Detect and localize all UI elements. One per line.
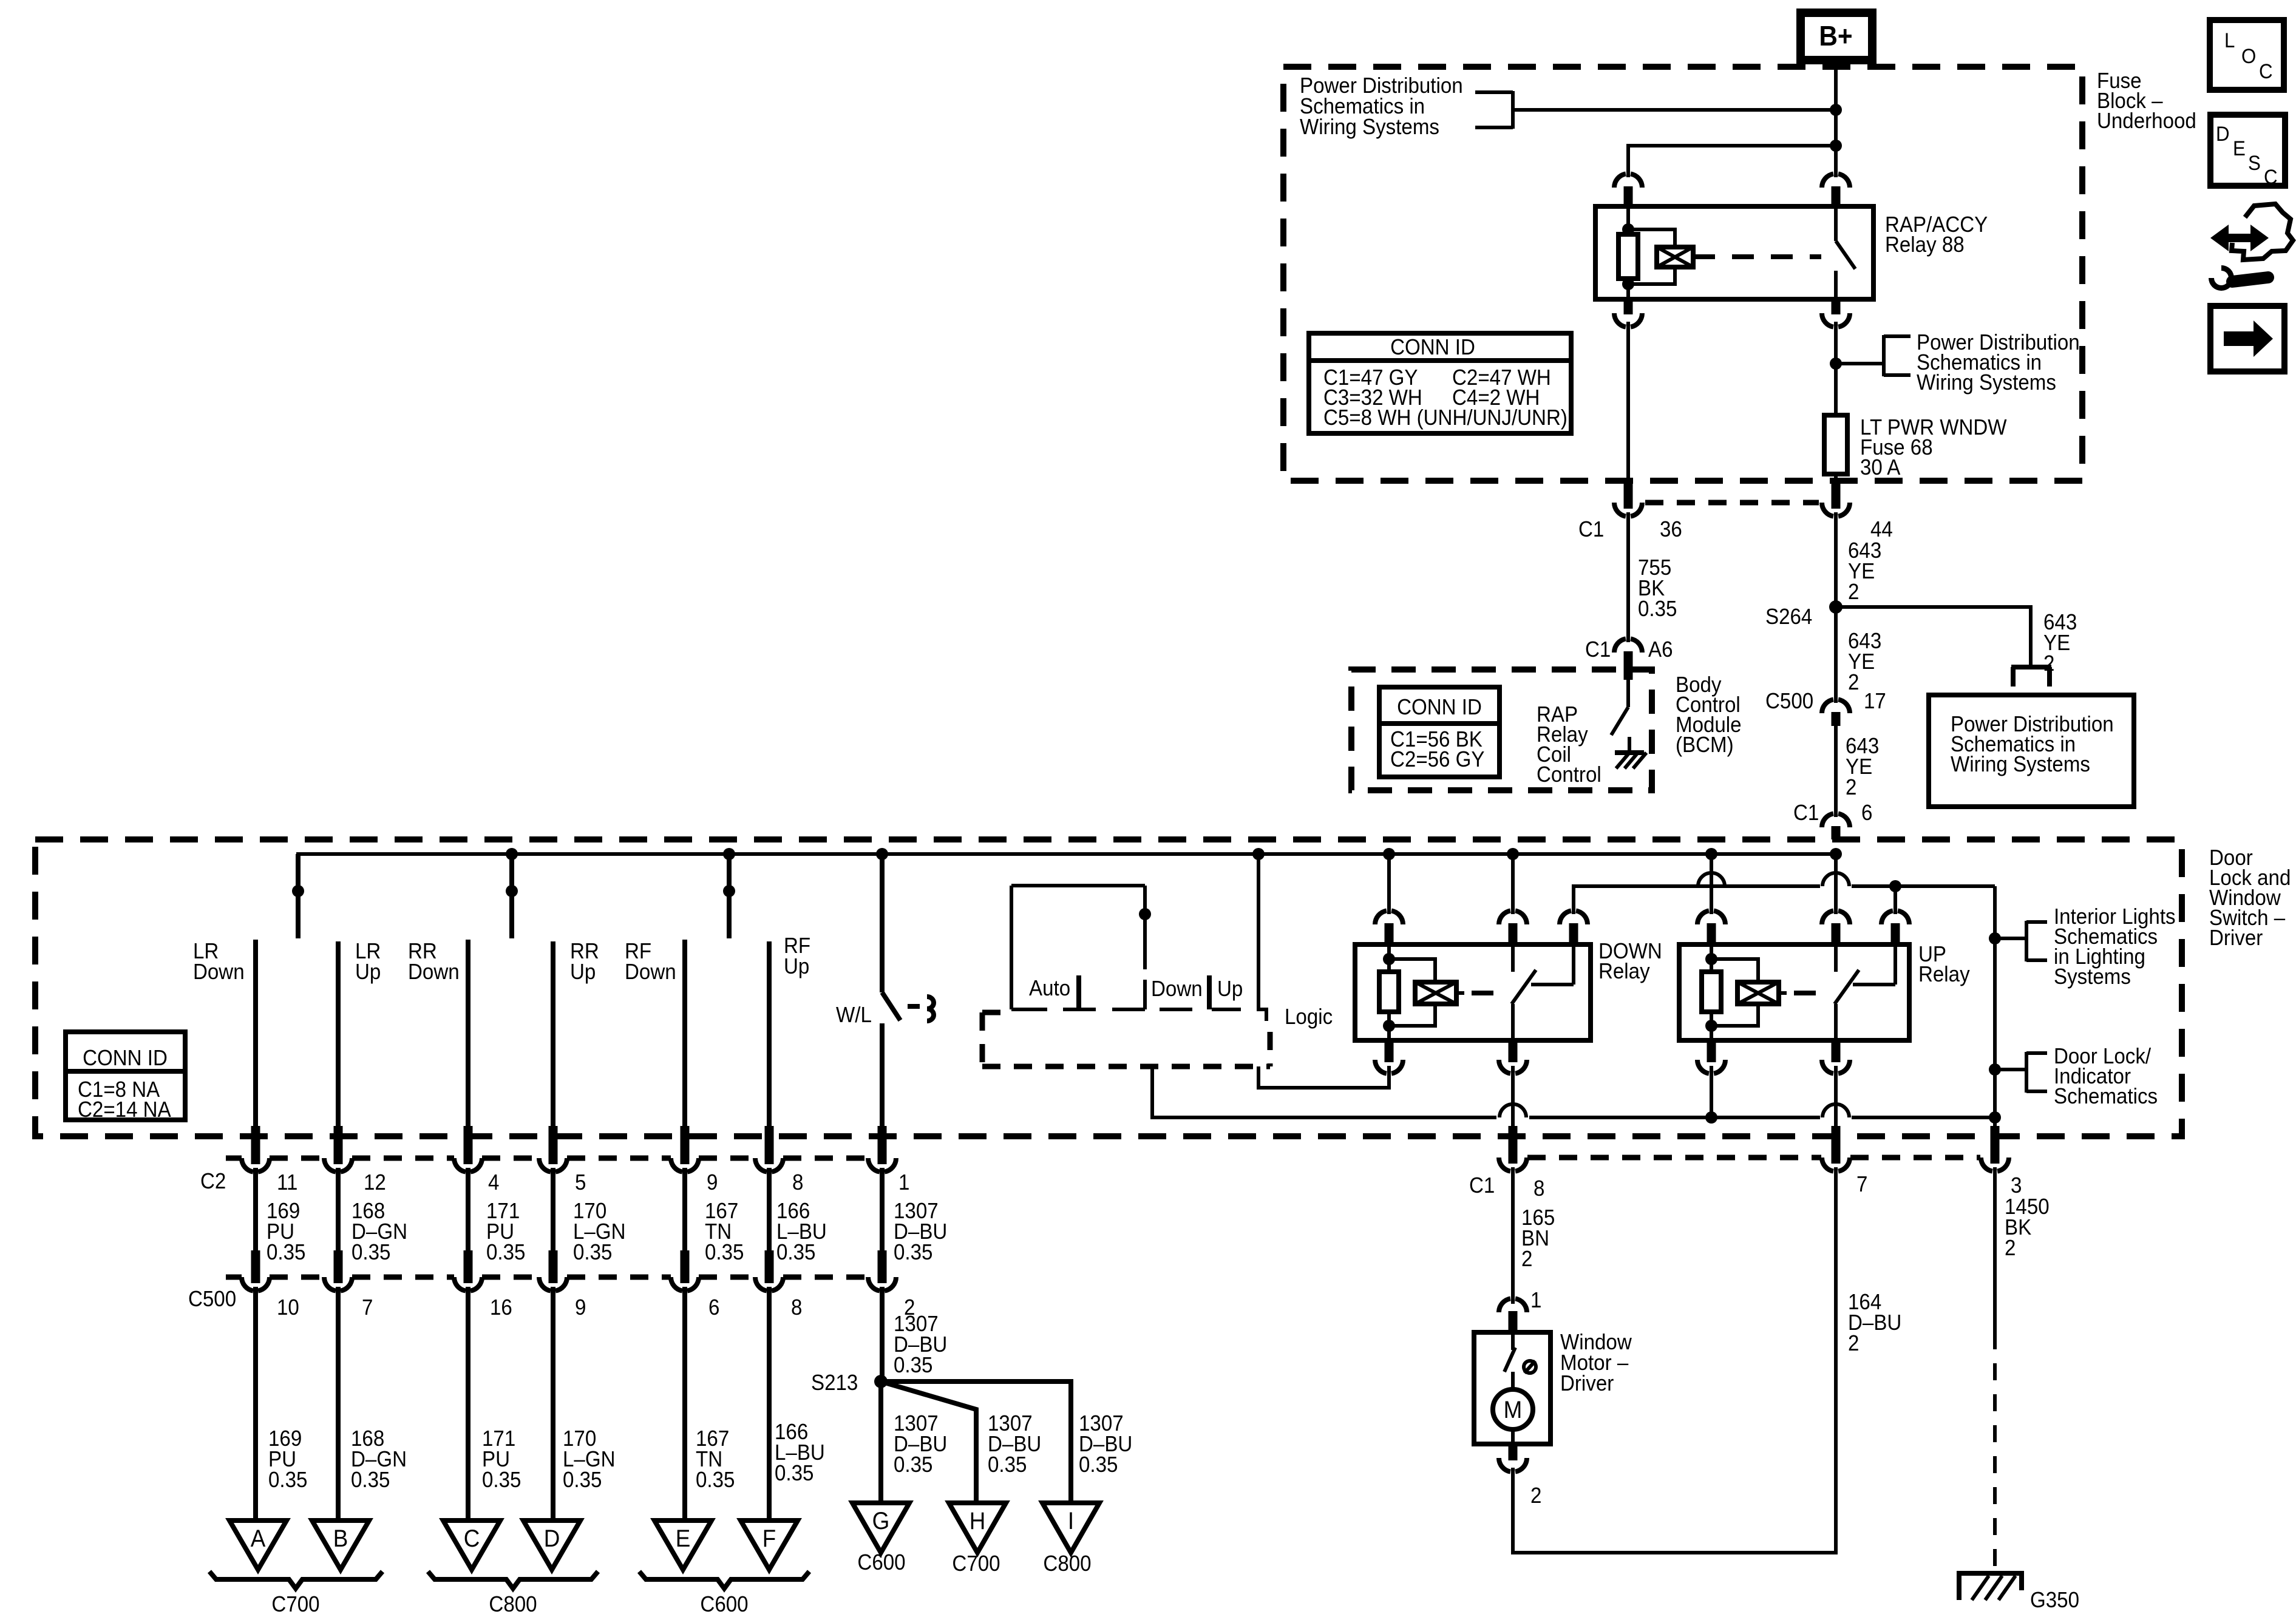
- LT PWR WNDW Fuse 68 30A fuse symbol: [1824, 415, 1847, 474]
- svg-text:9: 9: [707, 1171, 718, 1195]
- thermal protector circle symbol: [1524, 1361, 1536, 1373]
- DOWN Relay label: [1598, 940, 1662, 984]
- svg-text:0.35: 0.35: [482, 1468, 521, 1493]
- CONN ID table (fuse block): [1309, 333, 1571, 433]
- svg-text:C800: C800: [489, 1593, 537, 1617]
- pin labels C500 17: [1765, 690, 1886, 714]
- svg-text:C800: C800: [1043, 1552, 1091, 1576]
- C2 connector dotted line: [226, 1156, 868, 1161]
- wire label 166 L-BU above F: [775, 1420, 825, 1486]
- pin labels C1 A6: [1585, 638, 1673, 662]
- connector C1 pin 44 (fuse block output): [1822, 480, 1850, 517]
- C1 connector dotted line (fuse block bottom): [1645, 500, 1819, 506]
- wire 643 YE S264 to C500: [1834, 607, 1838, 703]
- svg-text:D: D: [544, 1525, 560, 1553]
- logic output wire to UP relay coil and ground net: [1152, 1066, 1496, 1117]
- wire to door lock bracket: [1995, 1068, 2026, 1071]
- junction dots RAP coil: [1622, 223, 1634, 290]
- junction dot UP relay NO pin to second bus: [1889, 880, 1901, 892]
- wire label 643 YE 2 (branch): [2043, 611, 2077, 676]
- brace C800 under C D: [428, 1571, 598, 1588]
- svg-text:G350: G350: [2030, 1588, 2079, 1613]
- connector C2 pin 4: [454, 1126, 482, 1172]
- RAP relay coil resistor: [1618, 206, 1638, 299]
- LR Up contact wire: [336, 941, 341, 1137]
- svg-text:D: D: [2216, 122, 2230, 146]
- reference bracket to Power Distribution (top): [1475, 91, 1513, 129]
- ground net vertical wire: [1993, 886, 1997, 1137]
- DOWN relay feed wires from bus: [1389, 854, 1513, 914]
- splice S213: [874, 1375, 888, 1388]
- hop second bus over UP coil feed: [1698, 873, 1725, 886]
- off-page triangle G: [852, 1503, 909, 1553]
- connector C1 pin 6 (switch feed): [1822, 813, 1850, 839]
- svg-text:Control: Control: [1537, 763, 1601, 787]
- connector C500 pin 2: [868, 1250, 896, 1291]
- svg-text:Wiring Systems: Wiring Systems: [1917, 371, 2056, 395]
- svg-text:Wiring Systems: Wiring Systems: [1951, 753, 2090, 777]
- svg-text:0.35: 0.35: [267, 1241, 305, 1265]
- RF Down label: [625, 940, 676, 985]
- connector C2 pin 11: [242, 1126, 270, 1172]
- reference bracket Door Lock: [2026, 1052, 2047, 1093]
- DOWN relay NC pin wire from second bus: [1572, 895, 1575, 914]
- off-page triangle D: [523, 1520, 580, 1570]
- motor output wire: [1511, 1428, 1515, 1445]
- off-page triangle A: [229, 1520, 287, 1570]
- wire 1450 BK dashed part: [1993, 1332, 1997, 1571]
- connector DOWN relay coil pin: [1375, 910, 1403, 944]
- svg-text:Up: Up: [784, 955, 809, 979]
- brace C600 under E F: [639, 1571, 809, 1588]
- svg-text:Systems: Systems: [2054, 965, 2131, 989]
- DOWN relay actuation dashed link: [1472, 991, 1509, 995]
- connector C1 pin 8: [1499, 1158, 1527, 1171]
- svg-text:Relay: Relay: [1918, 963, 1970, 987]
- LOC navigation box: [2210, 20, 2284, 90]
- RAP relay actuation dashed link: [1693, 254, 1821, 259]
- Body Control Module dashed box: [1351, 670, 1652, 790]
- svg-text:2: 2: [1846, 776, 1856, 800]
- svg-text:W/L: W/L: [836, 1003, 872, 1028]
- wire RAP coil control down to fuse block edge: [1626, 322, 1630, 482]
- RAP Relay Coil Control label: [1537, 703, 1601, 787]
- DOWN relay output wire to C1 pin 8: [1511, 1066, 1515, 1164]
- wire to right bracket: [1836, 362, 1884, 365]
- svg-text:C600: C600: [857, 1551, 905, 1575]
- UP Relay label: [1918, 943, 1970, 987]
- Power Distribution Schematics in Wiring Systems box (right): [1929, 695, 2134, 807]
- connector at RAP relay coil pin 86: [1614, 174, 1642, 188]
- svg-text:36: 36: [1660, 518, 1682, 542]
- connector window motor pin 2: [1499, 1443, 1527, 1472]
- LR Down contact wire: [253, 940, 258, 1137]
- svg-text:0.35: 0.35: [894, 1241, 932, 1265]
- hop over DOWN relay output: [1500, 1104, 1526, 1117]
- svg-text:CONN ID: CONN ID: [1390, 336, 1475, 360]
- connector C1 pin A6 at BCM: [1614, 639, 1642, 671]
- UP relay output wire to C1 pin 7: [1834, 1066, 1838, 1164]
- LR Up label: [355, 940, 381, 985]
- connector below UP relay output: [1822, 1040, 1850, 1074]
- connector below RAP relay switch side: [1822, 299, 1850, 327]
- S213 branch to I: [881, 1381, 1071, 1504]
- C2 pin numbers: [277, 1171, 909, 1195]
- svg-text:C500: C500: [188, 1287, 236, 1312]
- DOWN relay switch blade and contacts: [1512, 944, 1574, 1040]
- svg-text:1: 1: [1530, 1289, 1541, 1313]
- junction dot branch to relay coil: [1830, 140, 1842, 152]
- wires C2 to C500: [256, 1168, 882, 1252]
- connector below DOWN relay coil: [1375, 1040, 1403, 1088]
- ground net wire crossing box edge: [1991, 1126, 2000, 1164]
- connector DOWN relay switch pin: [1499, 910, 1527, 944]
- off-page triangle C: [443, 1520, 500, 1570]
- junction dot to power distribution bracket: [1830, 358, 1842, 370]
- off-page triangle I: [1042, 1503, 1099, 1553]
- svg-text:0.35: 0.35: [486, 1241, 525, 1265]
- connector below DOWN relay output: [1499, 1040, 1527, 1074]
- svg-text:10: 10: [277, 1296, 299, 1320]
- svg-text:0.35: 0.35: [563, 1468, 602, 1493]
- connector C1 pin 3: [1981, 1158, 2009, 1171]
- junction dot logic wire to ground net: [1989, 1111, 2001, 1124]
- svg-text:1: 1: [898, 1171, 909, 1195]
- svg-text:Logic: Logic: [1285, 1005, 1333, 1029]
- svg-text:CONN ID: CONN ID: [83, 1046, 168, 1071]
- connector C2 pin 5: [539, 1126, 567, 1172]
- svg-text:G: G: [872, 1508, 890, 1535]
- svg-text:0.35: 0.35: [1079, 1453, 1118, 1477]
- wire branch to RAP relay coil column: [1628, 146, 1836, 177]
- svg-text:C5=8 WH (UNH/UNJ/UNR): C5=8 WH (UNH/UNJ/UNR): [1323, 406, 1567, 430]
- motor thermal protector switch: [1504, 1333, 1515, 1390]
- svg-text:Relay: Relay: [1598, 960, 1650, 984]
- main feed bus inside switch: [298, 854, 1836, 938]
- svg-text:2: 2: [1848, 1332, 1859, 1356]
- connector C500 pin 7: [324, 1250, 352, 1291]
- svg-text:4: 4: [488, 1171, 499, 1195]
- svg-text:16: 16: [490, 1296, 512, 1320]
- UP Relay box: [1679, 944, 1909, 1040]
- wire B+ feed down to branch: [1834, 110, 1838, 146]
- LT PWR WNDW Fuse 68 label: [1860, 416, 2007, 480]
- wire label 164 D-BU 2: [1848, 1290, 1901, 1356]
- svg-text:6: 6: [1861, 801, 1872, 825]
- wire to interior lights bracket: [1995, 937, 2026, 940]
- diagnostic tools icon (arrows and wrench): [2209, 204, 2293, 291]
- logic output wire to DOWN relay coil: [1258, 1066, 1389, 1088]
- UP relay switch blade and contacts: [1835, 944, 1895, 1040]
- svg-text:30 A: 30 A: [1860, 456, 1900, 480]
- svg-text:5: 5: [575, 1171, 586, 1195]
- svg-text:0.35: 0.35: [705, 1241, 744, 1265]
- S213 branch to G: [878, 1381, 883, 1504]
- svg-text:L: L: [2224, 29, 2235, 52]
- wire to LT PWR WNDW fuse: [1834, 364, 1838, 415]
- junction dot UP coil to logic wire: [1705, 1111, 1717, 1124]
- wire label 643 YE 2 (lowest): [1846, 734, 1879, 800]
- junction dots UP coil: [1705, 953, 1717, 1032]
- wire fuse to fuse block edge: [1834, 474, 1838, 482]
- svg-text:0.35: 0.35: [894, 1453, 932, 1477]
- Auto/Down/Up master switch solid box: [1011, 886, 1241, 1009]
- svg-text:Wiring Systems: Wiring Systems: [1300, 115, 1439, 140]
- svg-text:Down: Down: [625, 960, 676, 985]
- junction dot B+ feed / bracket wire: [1830, 104, 1842, 116]
- svg-text:3: 3: [2011, 1174, 2022, 1198]
- connector C1 pin 36 (fuse block output): [1614, 480, 1642, 517]
- RF Up contact wire: [767, 941, 772, 1137]
- RAP relay coil parallel loop and coil symbol: [1628, 229, 1693, 284]
- BCM internal ground symbol: [1615, 753, 1646, 768]
- connector at RAP relay switch pin 30: [1822, 174, 1850, 188]
- off-page triangle F: [741, 1520, 798, 1570]
- C500 connector dotted line: [226, 1275, 868, 1280]
- svg-text:Down: Down: [1151, 977, 1203, 1002]
- svg-text:S213: S213: [811, 1371, 858, 1395]
- ground G350 symbol: [1957, 1573, 2024, 1600]
- svg-text:8: 8: [791, 1296, 802, 1320]
- Logic dashed box: [982, 1012, 1270, 1066]
- svg-text:C600: C600: [700, 1593, 748, 1617]
- svg-text:44: 44: [1870, 518, 1893, 542]
- svg-text:B+: B+: [1819, 21, 1852, 52]
- brace C700 under A B: [209, 1571, 382, 1588]
- svg-text:Up: Up: [1217, 977, 1243, 1002]
- svg-text:M: M: [1504, 1397, 1523, 1424]
- Door Lock and Window Switch dashed boundary: [35, 839, 2182, 1136]
- svg-text:C1: C1: [1469, 1174, 1495, 1198]
- svg-text:Up: Up: [570, 960, 596, 985]
- hop second bus over UP switch feed: [1822, 873, 1849, 886]
- svg-text:H: H: [970, 1508, 986, 1535]
- svg-text:O: O: [2241, 44, 2256, 68]
- svg-text:C: C: [2264, 165, 2278, 189]
- Down contact tick: [1207, 975, 1212, 1009]
- C1 pin labels: [1469, 1173, 2022, 1201]
- svg-text:C: C: [2259, 59, 2273, 83]
- off-page triangle B: [312, 1520, 369, 1570]
- wire label 755 BK 0.35: [1638, 556, 1677, 622]
- RR Down contact wire: [466, 940, 470, 1137]
- svg-text:Driver: Driver: [2209, 926, 2263, 951]
- connector DOWN relay NC pin: [1560, 910, 1588, 944]
- wire 643 YE from pin 44 to S264: [1834, 512, 1838, 607]
- svg-text:A6: A6: [1648, 638, 1673, 662]
- svg-text:0.35: 0.35: [268, 1468, 307, 1493]
- svg-text:Schematics: Schematics: [2054, 1085, 2158, 1109]
- window lock detent symbol: [908, 997, 934, 1021]
- harness continuation staple symbol: [2011, 667, 2051, 686]
- UP relay coil resistor: [1702, 944, 1721, 1040]
- C1 connector dotted line (switch to motor): [1527, 1155, 1980, 1161]
- Power Distribution Schematics label (mid): [1917, 331, 2080, 395]
- wire 1450 BK ground solid part: [1993, 1167, 1997, 1332]
- svg-text:2: 2: [1521, 1247, 1532, 1272]
- svg-text:0.35: 0.35: [988, 1453, 1027, 1477]
- svg-text:Up: Up: [355, 960, 381, 985]
- splice S264: [1829, 600, 1843, 614]
- svg-text:11: 11: [277, 1171, 297, 1195]
- connector UP relay switch pin: [1822, 910, 1850, 944]
- DOWN Relay box: [1355, 944, 1591, 1040]
- Power Distribution Schematics in Wiring Systems label (top left): [1300, 74, 1463, 140]
- RR Down label: [408, 940, 460, 985]
- Window Motor - Driver label: [1560, 1331, 1632, 1396]
- connector below UP relay coil: [1697, 1040, 1725, 1117]
- wire 165 BN to window motor: [1511, 1167, 1515, 1304]
- svg-text:C1: C1: [1585, 638, 1611, 662]
- DESC navigation box: [2210, 115, 2285, 188]
- DOWN relay coil resistor: [1379, 944, 1399, 1040]
- svg-text:Relay 88: Relay 88: [1885, 233, 1965, 257]
- BCM RAP relay coil control driver switch: [1611, 668, 1629, 753]
- off-page triangle H: [949, 1503, 1006, 1553]
- wire labels 1307 D-BU to G H I: [894, 1412, 1132, 1477]
- UP relay NO pin wire from second bus: [1894, 886, 1897, 914]
- Body Control Module (BCM) label: [1676, 673, 1742, 758]
- svg-text:9: 9: [575, 1296, 586, 1320]
- CONN ID table (BCM): [1379, 687, 1500, 777]
- svg-text:2: 2: [1848, 671, 1859, 695]
- wire labels between C2 and C500: [267, 1199, 947, 1265]
- connector C500 pin 10: [242, 1250, 270, 1291]
- svg-text:S264: S264: [1765, 605, 1812, 629]
- LR Down label: [193, 940, 245, 985]
- svg-text:0.35: 0.35: [352, 1241, 390, 1265]
- svg-text:C700: C700: [952, 1552, 1000, 1576]
- reference bracket Interior Lights: [2026, 921, 2047, 961]
- svg-text:C2=56 GY: C2=56 GY: [1390, 748, 1485, 772]
- svg-text:0.35: 0.35: [351, 1468, 390, 1493]
- svg-text:Auto: Auto: [1029, 977, 1070, 1001]
- wire W/L column to S213: [880, 1287, 885, 1381]
- branch wire from S264 to harness stub: [1836, 607, 2031, 665]
- svg-text:8: 8: [792, 1171, 803, 1195]
- switch common column: [1258, 854, 1266, 1021]
- connector UP relay NO pin: [1881, 910, 1909, 944]
- wire label 165 BN 2: [1521, 1206, 1555, 1272]
- Interior Lights Schematics in Lighting Systems label: [2054, 905, 2176, 989]
- hop over UP relay output: [1822, 1104, 1849, 1117]
- svg-text:Driver: Driver: [1560, 1372, 1614, 1396]
- motor M circle: [1493, 1389, 1533, 1429]
- svg-text:S: S: [2248, 151, 2261, 175]
- svg-text:A: A: [251, 1525, 266, 1553]
- svg-text:C1: C1: [1793, 801, 1819, 825]
- Door Lock and Window Switch - Driver label: [2209, 846, 2291, 951]
- connector C2 pin 9: [671, 1126, 699, 1172]
- svg-text:E: E: [676, 1525, 691, 1553]
- S213 branch to H: [881, 1381, 976, 1504]
- UP relay feed wires from bus: [1711, 854, 1836, 914]
- Door Lock/Indicator Schematics label: [2054, 1045, 2158, 1109]
- wire label 1450 BK 2: [2005, 1195, 2050, 1261]
- connector C500 pin 6: [671, 1250, 699, 1291]
- svg-text:17: 17: [1864, 690, 1886, 714]
- switch common drop RR: [506, 854, 518, 938]
- svg-text:C1: C1: [1578, 518, 1604, 542]
- RAP relay switch: [1836, 206, 1855, 299]
- svg-text:CONN ID: CONN ID: [1397, 696, 1482, 720]
- svg-text:0.35: 0.35: [775, 1462, 813, 1486]
- svg-text:C500: C500: [1765, 690, 1813, 714]
- wire 643 YE C500 to C1 pin 6: [1834, 722, 1838, 817]
- B+ power terminal: [1801, 13, 1872, 60]
- svg-text:12: 12: [364, 1171, 386, 1195]
- wire B+ down to fuse block: [1834, 60, 1838, 109]
- wire from bracket to B+ feed: [1513, 108, 1836, 112]
- motor return wire to pin 7 wire: [1513, 1167, 1836, 1553]
- DOWN relay coil loop and coil symbol: [1389, 959, 1464, 1026]
- svg-text:C2=14 NA: C2=14 NA: [78, 1098, 171, 1122]
- pin labels C1 36 44: [1578, 518, 1893, 542]
- connector C2 pin 12: [324, 1126, 352, 1172]
- svg-text:0.35: 0.35: [894, 1354, 932, 1378]
- bus junction dots: [506, 848, 1842, 860]
- reference bracket Power Distribution (mid): [1884, 335, 1911, 376]
- RR Up contact wire: [551, 941, 555, 1137]
- UP relay actuation dashed link: [1794, 991, 1832, 995]
- Window Motor - Driver box: [1474, 1332, 1550, 1444]
- connector C500 pin 17: [1822, 699, 1850, 726]
- pin labels C1 6: [1793, 801, 1872, 825]
- connector C2 pin 1: [868, 1126, 896, 1172]
- svg-text:2: 2: [2005, 1236, 2016, 1261]
- off-page triangle E: [654, 1520, 712, 1570]
- wires C500 down to off-page triangles: [256, 1287, 769, 1520]
- Fuse Block - Underhood label: [2097, 69, 2196, 134]
- RAP/ACCY Relay 88 box: [1595, 206, 1873, 299]
- svg-text:E: E: [2233, 137, 2246, 160]
- C500 pin numbers: [277, 1296, 915, 1320]
- switch common drop RF: [723, 854, 735, 938]
- wire RAP relay output down to fuse: [1834, 322, 1838, 364]
- svg-text:F: F: [763, 1525, 776, 1553]
- Auto contact tick: [1076, 975, 1081, 1009]
- RF Up label: [784, 934, 810, 979]
- connector window motor pin 1: [1499, 1298, 1527, 1334]
- switch common drop LR: [292, 854, 304, 938]
- svg-text:C2: C2: [200, 1170, 226, 1194]
- svg-text:0.35: 0.35: [776, 1241, 815, 1265]
- W/L window lock switch: [882, 854, 900, 1137]
- RAP/ACCY Relay 88 label: [1885, 213, 1988, 257]
- RF Down contact wire: [682, 940, 687, 1137]
- junction dot on auto latch loop: [1139, 908, 1151, 920]
- next page arrow box: [2210, 306, 2284, 371]
- wire label 643 YE 2 (upper): [1848, 539, 1881, 605]
- connector UP relay coil pin: [1697, 910, 1725, 944]
- relay NC return bus: [1574, 886, 1820, 897]
- svg-text:C700: C700: [271, 1593, 319, 1617]
- svg-text:0.35: 0.35: [696, 1468, 735, 1493]
- connector C500 pin 16: [454, 1250, 482, 1291]
- connector below RAP relay coil side: [1614, 299, 1642, 327]
- svg-text:Underhood: Underhood: [2097, 109, 2196, 134]
- svg-text:Down: Down: [193, 960, 245, 985]
- junction dots DOWN coil: [1383, 953, 1395, 1032]
- connector C500 pin 8: [755, 1250, 783, 1291]
- connector C1 pin 7: [1822, 1158, 1850, 1171]
- svg-text:2: 2: [1848, 580, 1859, 605]
- CONN ID table (door switch): [66, 1032, 185, 1122]
- svg-text:I: I: [1068, 1508, 1074, 1535]
- wire 755 BK to BCM: [1626, 512, 1630, 642]
- svg-text:0.35: 0.35: [573, 1241, 612, 1265]
- wire B+ feed to RAP relay switch: [1834, 146, 1838, 177]
